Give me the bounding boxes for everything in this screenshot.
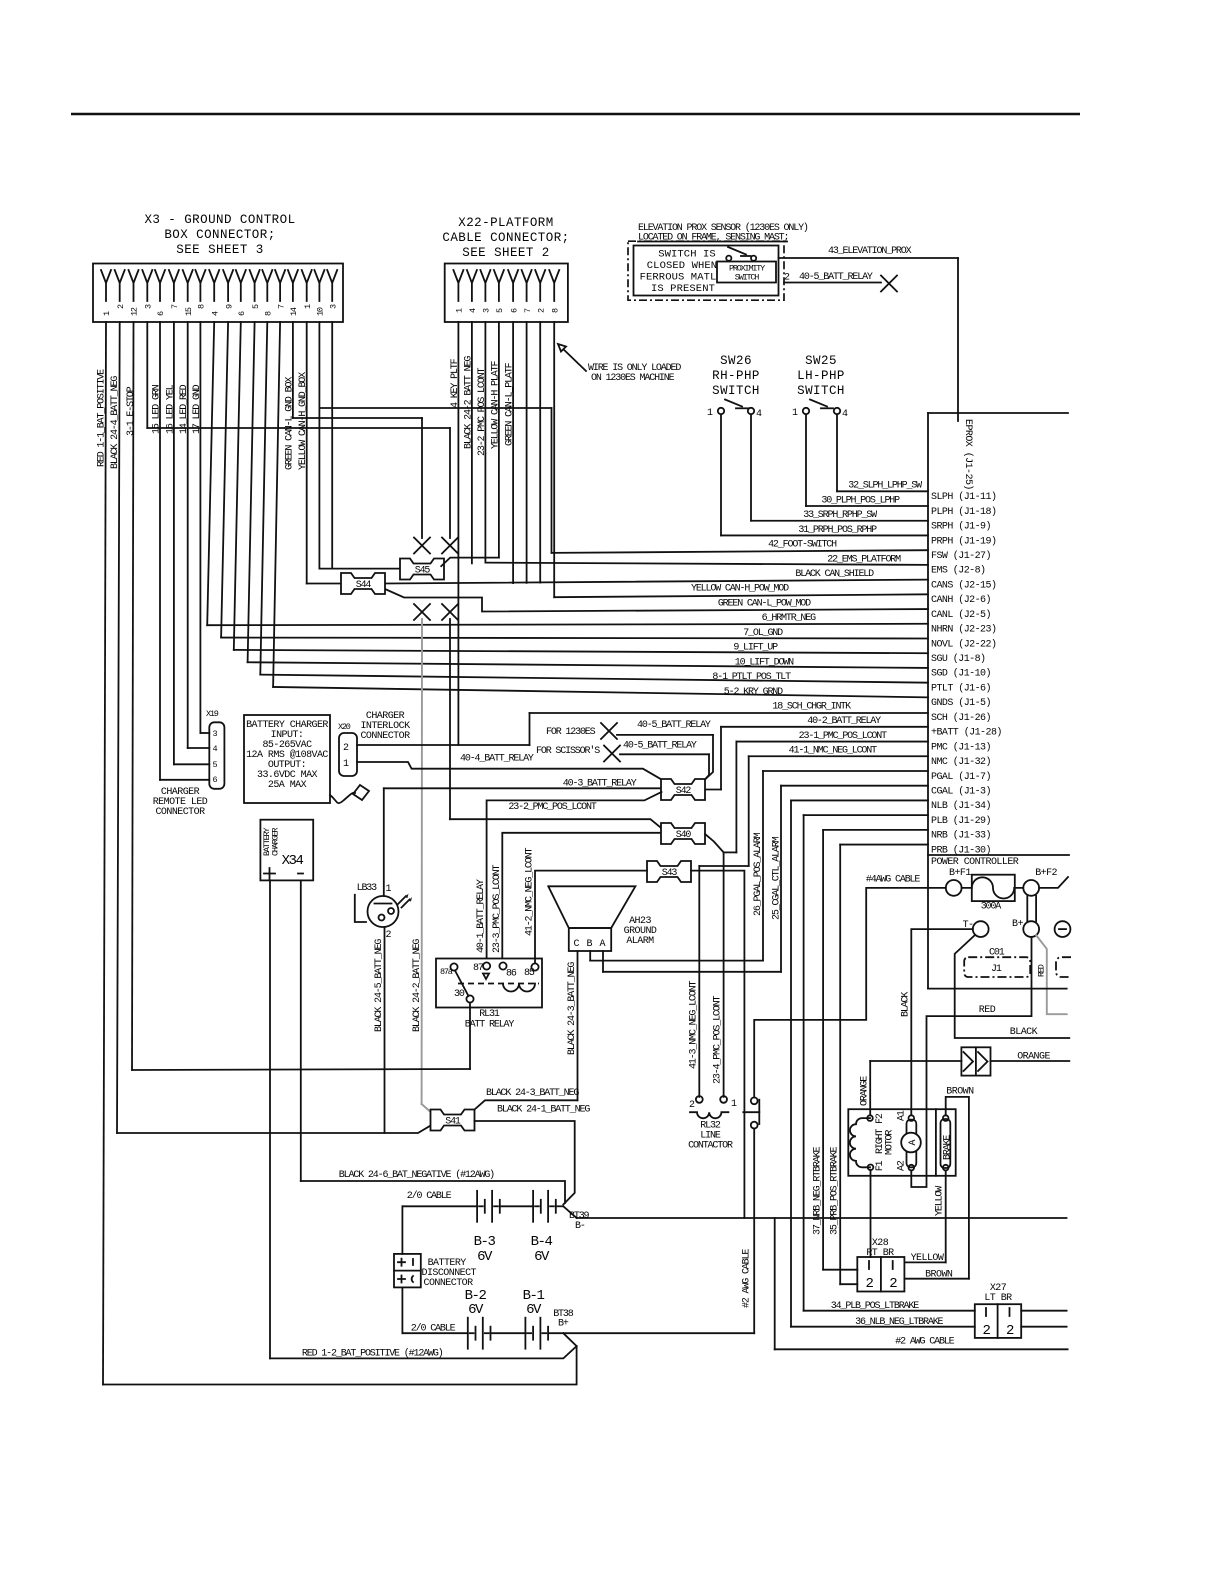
svg-text:25A MAX: 25A MAX bbox=[268, 780, 307, 791]
wire PRB into X28 bbox=[840, 1283, 857, 1285]
wire X3 pin to row PTLT (J1-6) bbox=[260, 322, 267, 675]
svg-text:S41: S41 bbox=[445, 1117, 461, 1128]
svg-text:2: 2 bbox=[343, 743, 349, 754]
X22 pin 8 bbox=[549, 270, 559, 301]
wire row +BATT from S42 bbox=[721, 726, 928, 728]
wire YELLOW from brake down bbox=[945, 1170, 947, 1262]
gray wire BLACK 24-2_BATT_NEG to S41 bbox=[421, 619, 423, 1104]
svg-text:41-3_NMC_NEG_LCONT: 41-3_NMC_NEG_LCONT bbox=[689, 981, 700, 1069]
svg-text:23-2_PMC_POS_LCONT: 23-2_PMC_POS_LCONT bbox=[477, 368, 488, 456]
wire S43 right down bbox=[691, 871, 744, 1218]
wire row EMS platform bbox=[485, 563, 928, 565]
svg-text:300A: 300A bbox=[981, 902, 1002, 913]
wire X3 pin4 to cut CAN wire bbox=[146, 322, 148, 428]
RL31 contact arm bbox=[455, 971, 469, 997]
motor terminal F2 bbox=[867, 1115, 873, 1121]
svg-text:PRB (J1-30): PRB (J1-30) bbox=[931, 844, 991, 856]
svg-text:S43: S43 bbox=[662, 868, 678, 879]
X3 pin 8 bbox=[195, 270, 205, 301]
svg-text:87a: 87a bbox=[440, 967, 453, 977]
cut mark lower black bbox=[442, 604, 458, 620]
prox sensor box bbox=[634, 246, 779, 296]
svg-text:30_PLPH_POS_LPHP: 30_PLPH_POS_LPHP bbox=[821, 495, 900, 506]
motor field coil bbox=[850, 1118, 870, 1167]
X3 pin 10 bbox=[314, 270, 324, 301]
wire RED 1-1_BAT_POSITIVE from X3 pin1 bbox=[103, 322, 106, 1385]
brake box bbox=[935, 1109, 937, 1176]
cut mark 40-5 upper bbox=[601, 723, 617, 739]
svg-text:GNDS (J1-5): GNDS (J1-5) bbox=[931, 697, 991, 709]
connector X34 battery charger bbox=[260, 820, 313, 881]
X3 pin 6 bbox=[155, 270, 165, 301]
wire S40 right to RL32 coil 1 bbox=[705, 834, 724, 1097]
wire S45 right link to X22 pin4 bbox=[441, 558, 499, 567]
svg-text:J1: J1 bbox=[991, 964, 1002, 975]
wires X3 pins 5-8 to X19 bbox=[159, 322, 161, 780]
battery disconnect connector bbox=[401, 1206, 403, 1254]
wire row SRPH from SW26 pin4 bbox=[750, 415, 752, 521]
svg-text:4: 4 bbox=[756, 409, 762, 420]
X3 pin 6 bbox=[236, 270, 246, 301]
X22 pin 6 bbox=[508, 270, 518, 301]
wire X22 pin7 down bbox=[526, 322, 528, 583]
wire row PMC bbox=[736, 741, 928, 743]
svg-text:FSW (J1-27): FSW (J1-27) bbox=[931, 550, 991, 562]
svg-text:RH-PHP: RH-PHP bbox=[712, 369, 760, 383]
wire X3 pin16 to S44 bbox=[306, 322, 308, 584]
svg-text:40-1_BATT_RELAY: 40-1_BATT_RELAY bbox=[476, 879, 487, 953]
svg-text:X34: X34 bbox=[282, 853, 304, 869]
svg-text:14: 14 bbox=[289, 307, 299, 316]
wire RL31 pin85 to S43 bbox=[535, 871, 647, 963]
svg-text:6V: 6V bbox=[526, 1302, 542, 1318]
svg-text:YELLOW: YELLOW bbox=[935, 1186, 946, 1216]
battery B-3 bbox=[476, 1191, 478, 1222]
X3 pin 7 bbox=[275, 270, 285, 301]
splice S42 bbox=[661, 779, 705, 800]
X3 pin 14 bbox=[288, 270, 298, 301]
X22 pin 7 bbox=[522, 270, 532, 301]
wire row NMC bbox=[749, 755, 928, 757]
svg-text:BLACK CAN_SHIELD: BLACK CAN_SHIELD bbox=[795, 569, 874, 580]
svg-text:B-: B- bbox=[575, 1221, 585, 1232]
svg-text:2: 2 bbox=[866, 1276, 874, 1292]
svg-text:BLACK 24-6_BAT_NEGATIVE (#12AW: BLACK 24-6_BAT_NEGATIVE (#12AWG) bbox=[339, 1169, 494, 1181]
wire battery B+ to RL32 run bbox=[565, 1332, 754, 1334]
contactor RL32 coil bbox=[696, 1096, 703, 1103]
svg-text:BLACK 24-2_BATT_NEG: BLACK 24-2_BATT_NEG bbox=[412, 939, 423, 1032]
wire BLACK 24-4 to S41 bbox=[117, 1126, 431, 1134]
svg-text:85: 85 bbox=[524, 968, 535, 979]
svg-text:10: 10 bbox=[316, 307, 326, 316]
LB33 bracket bbox=[355, 895, 366, 922]
svg-text:31_PRPH_POS_RPHP: 31_PRPH_POS_RPHP bbox=[798, 525, 877, 536]
svg-text:23-4_PMC_POS_LCONT: 23-4_PMC_POS_LCONT bbox=[713, 996, 724, 1084]
X3 pin 15 bbox=[183, 270, 193, 301]
wire X22 pin8 down bbox=[553, 322, 555, 597]
svg-text:BLACK 24-4_BATT_NEG: BLACK 24-4_BATT_NEG bbox=[110, 376, 121, 469]
wire X20 pin2 to SCH row bbox=[357, 744, 530, 746]
svg-text:26_PGAL_POS_ALARM: 26_PGAL_POS_ALARM bbox=[753, 832, 764, 916]
svg-text:B+F1: B+F1 bbox=[949, 868, 971, 879]
wire B- bus long bbox=[577, 1217, 1067, 1219]
svg-text:CANS (J2-15): CANS (J2-15) bbox=[931, 579, 996, 591]
svg-text:B: B bbox=[587, 939, 593, 950]
X22 pin 3 bbox=[480, 270, 490, 301]
wire AH23 pin B to PGAL bbox=[589, 951, 591, 961]
wire X3 pin17 to S45 bbox=[318, 322, 320, 569]
svg-text:SEE SHEET 2: SEE SHEET 2 bbox=[462, 246, 549, 260]
battery B-2 bbox=[467, 1318, 469, 1349]
svg-text:FERROUS MATL: FERROUS MATL bbox=[640, 272, 717, 284]
svg-text:35_PRB_POS_RTBRAKE: 35_PRB_POS_RTBRAKE bbox=[830, 1147, 841, 1235]
wire B+F2 right stub bbox=[1039, 877, 1068, 888]
svg-text:2: 2 bbox=[1006, 1323, 1014, 1339]
wire row NRB down to X28 bbox=[823, 829, 928, 831]
svg-text:SW26: SW26 bbox=[720, 354, 752, 368]
wire battery B+ diag bbox=[563, 1333, 576, 1346]
connector J2 dashed stub bbox=[1056, 957, 1071, 977]
wire S44 right to X22 pin6 bbox=[512, 322, 514, 583]
wire 40-1_BATT_RELAY RL31 pin87 to S42 bbox=[487, 792, 662, 958]
X3 pin 12 bbox=[129, 270, 139, 301]
RL31 pin 86 bbox=[499, 962, 506, 969]
svg-text:CGAL (J1-3): CGAL (J1-3) bbox=[931, 786, 991, 798]
svg-text:A1: A1 bbox=[897, 1110, 908, 1121]
wire motor F1 down to X28 bbox=[870, 1170, 872, 1257]
svg-text:12: 12 bbox=[130, 307, 140, 316]
wire 3-1_E-STOP from X3 pin3 bbox=[132, 322, 134, 1070]
splice S45 bbox=[400, 559, 444, 580]
svg-text:33_SRPH_RPHP_SW: 33_SRPH_RPHP_SW bbox=[803, 510, 877, 521]
brake pill bbox=[941, 1119, 951, 1168]
svg-text:7_OL_GND: 7_OL_GND bbox=[743, 628, 783, 639]
svg-text:S44: S44 bbox=[356, 580, 372, 591]
svg-text:ON 1230ES MACHINE: ON 1230ES MACHINE bbox=[591, 373, 675, 384]
svg-text:NRB (J1-33): NRB (J1-33) bbox=[931, 830, 991, 842]
wire cut to S40 (23-2_PMC_POS_LCONT) bbox=[449, 619, 451, 819]
svg-text:GREEN CAN-L_POW_MOD: GREEN CAN-L_POW_MOD bbox=[718, 598, 811, 609]
svg-text:B+: B+ bbox=[558, 1319, 569, 1330]
svg-text:PLPH (J1-18): PLPH (J1-18) bbox=[931, 506, 996, 518]
svg-text:POWER CONTROLLER: POWER CONTROLLER bbox=[931, 857, 1019, 868]
svg-text:32_SLPH_LPHP_SW: 32_SLPH_LPHP_SW bbox=[848, 481, 922, 492]
wire X3 pin15 to cut CAN wire bbox=[292, 322, 294, 418]
svg-text:BLACK 24-1_BATT_NEG: BLACK 24-1_BATT_NEG bbox=[497, 1105, 590, 1116]
wire X3 pin to row NOVL (J2-22) bbox=[221, 322, 228, 638]
cut mark CAN-L upper bbox=[414, 538, 430, 554]
wire RL31 pin30 to E-STOP line bbox=[469, 1003, 471, 1069]
svg-text:A2: A2 bbox=[897, 1160, 908, 1171]
svg-text:18_SCH_CHGR_INTK: 18_SCH_CHGR_INTK bbox=[772, 702, 851, 713]
X3 pin 1 bbox=[302, 270, 312, 301]
svg-text:42_FOOT-SWITCH: 42_FOOT-SWITCH bbox=[768, 540, 837, 551]
svg-text:6V: 6V bbox=[477, 1249, 493, 1265]
svg-text:40-5_BATT_RELAY: 40-5_BATT_RELAY bbox=[799, 272, 873, 283]
wire RL32 coil 2 up bbox=[698, 866, 700, 1097]
cut mark CAN-H upper bbox=[442, 538, 458, 554]
svg-text:RL31: RL31 bbox=[479, 1009, 500, 1020]
svg-text:LH-PHP: LH-PHP bbox=[797, 369, 845, 383]
diode block bbox=[961, 1047, 990, 1075]
wire row PGAL down to alarm bbox=[763, 770, 928, 772]
svg-text:CHARGER: CHARGER bbox=[271, 828, 281, 856]
svg-text:CONNECTOR: CONNECTOR bbox=[360, 731, 410, 742]
svg-text:CONTACTOR: CONTACTOR bbox=[688, 1141, 733, 1152]
wire T- to motor A1 (BLACK) bbox=[911, 929, 973, 1114]
wire B+ down RED to motor A2 bbox=[911, 937, 1031, 1187]
svg-text:41-2_NMC_NEG_LCONT: 41-2_NMC_NEG_LCONT bbox=[525, 848, 536, 936]
RL31 pin 85 bbox=[531, 963, 538, 970]
svg-text:SGU (J1-8): SGU (J1-8) bbox=[931, 653, 986, 665]
svg-text:X20: X20 bbox=[338, 722, 351, 732]
svg-text:FOR 1230ES: FOR 1230ES bbox=[546, 727, 596, 738]
svg-text:SGD (J1-10): SGD (J1-10) bbox=[931, 668, 991, 680]
wire X22 pin1 key joins bbox=[457, 322, 459, 745]
alarm AH23 horn bbox=[548, 886, 635, 928]
svg-text:X19: X19 bbox=[206, 709, 219, 719]
wire row PRPH from SW26 pin1 bbox=[720, 415, 722, 536]
svg-text:GREEN CAN-L_PLATF: GREEN CAN-L_PLATF bbox=[505, 362, 516, 446]
X3 pin 7 bbox=[169, 270, 179, 301]
wire row FSW foot switch bbox=[552, 550, 929, 553]
svg-text:B+F2: B+F2 bbox=[1035, 868, 1057, 879]
svg-text:#4AWG CABLE: #4AWG CABLE bbox=[866, 875, 921, 886]
svg-text:ALARM: ALARM bbox=[626, 936, 654, 947]
svg-text:23-1_PMC_POS_LCONT: 23-1_PMC_POS_LCONT bbox=[799, 731, 887, 742]
wire X22 pin2b down bbox=[539, 322, 541, 583]
svg-text:86: 86 bbox=[506, 969, 517, 980]
wire X34 minus down BLACK 24-6 bbox=[300, 880, 302, 1181]
svg-text:SCH (J1-26): SCH (J1-26) bbox=[931, 712, 991, 724]
svg-text:NLB (J1-34): NLB (J1-34) bbox=[931, 800, 991, 812]
svg-text:4: 4 bbox=[842, 409, 848, 420]
svg-text:S45: S45 bbox=[415, 566, 431, 577]
svg-text:LB33: LB33 bbox=[357, 883, 378, 894]
wire NRB into X28 bbox=[823, 1269, 857, 1271]
wire BLACK 24-4_BATT_NEG from X3 pin2 bbox=[117, 322, 120, 1133]
battery B-1 bbox=[491, 1332, 526, 1334]
X3 pin 9 bbox=[223, 270, 233, 301]
wire B- diag from battery bbox=[563, 1206, 576, 1218]
svg-text:#2 AWG CABLE: #2 AWG CABLE bbox=[742, 1249, 753, 1308]
svg-text:2: 2 bbox=[386, 930, 392, 941]
svg-text:2/0 CABLE: 2/0 CABLE bbox=[407, 1190, 452, 1202]
svg-text:YELLOW CAN-H_GND_BOX: YELLOW CAN-H_GND_BOX bbox=[298, 372, 309, 470]
wire X22 pin3 down bbox=[484, 322, 486, 563]
svg-text:MOTOR: MOTOR bbox=[885, 1130, 896, 1155]
svg-text:A: A bbox=[600, 939, 606, 950]
power controller box bottom bbox=[928, 988, 1067, 990]
svg-text:40-4_BATT_RELAY: 40-4_BATT_RELAY bbox=[460, 754, 534, 765]
page top border line bbox=[71, 113, 1080, 116]
svg-text:PLB (J1-29): PLB (J1-29) bbox=[931, 815, 991, 827]
svg-text:CANL (J2-5): CANL (J2-5) bbox=[931, 609, 991, 621]
svg-text:15: 15 bbox=[184, 307, 194, 316]
RL31 pin 87a bbox=[450, 963, 457, 970]
X3 pin 3 bbox=[327, 270, 337, 301]
wire 1230ES-only jumper bbox=[319, 407, 551, 409]
X22 pin 1 bbox=[453, 270, 463, 301]
X3 pin 4 bbox=[209, 270, 219, 301]
X22 pin 4 bbox=[467, 270, 477, 301]
wire RL31 pin86 to S40 bbox=[502, 833, 659, 958]
svg-text:1: 1 bbox=[386, 884, 392, 895]
svg-text:BOX CONNECTOR;: BOX CONNECTOR; bbox=[164, 228, 275, 242]
wire ORANGE from motor F2 bbox=[870, 1060, 961, 1062]
svg-text:BLACK 24-3_BATT_NEG: BLACK 24-3_BATT_NEG bbox=[486, 1088, 579, 1099]
svg-text:2: 2 bbox=[983, 1323, 991, 1339]
RL31 dashed bar bbox=[458, 983, 539, 985]
svg-text:#2 AWG CABLE: #2 AWG CABLE bbox=[895, 1337, 954, 1348]
svg-text:EMS (J2-8): EMS (J2-8) bbox=[931, 565, 986, 577]
svg-text:+BATT (J1-28): +BATT (J1-28) bbox=[931, 727, 1002, 739]
svg-text:SRPH (J1-9): SRPH (J1-9) bbox=[931, 521, 991, 533]
RL31 coil arcs bbox=[503, 984, 535, 992]
svg-text:BLACK: BLACK bbox=[901, 992, 912, 1017]
wire RED 1-1 bottom run bbox=[103, 1346, 577, 1384]
gray highlight RED stub bbox=[1036, 935, 1067, 1014]
svg-text:BATT RELAY: BATT RELAY bbox=[465, 1020, 515, 1031]
svg-text:40-5_BATT_RELAY: 40-5_BATT_RELAY bbox=[637, 720, 711, 731]
svg-text:BRAKE: BRAKE bbox=[943, 1135, 954, 1160]
fuse 300A bbox=[972, 875, 1015, 901]
svg-text:X3 - GROUND CONTROL: X3 - GROUND CONTROL bbox=[144, 213, 295, 227]
svg-text:SWITCH: SWITCH bbox=[797, 384, 845, 398]
svg-text:BROWN: BROWN bbox=[946, 1087, 974, 1098]
svg-text:43_ELEVATION_PROX: 43_ELEVATION_PROX bbox=[828, 246, 912, 257]
svg-text:ORANGE: ORANGE bbox=[860, 1076, 871, 1106]
wire BLACK 24-5_BATT_NEG from LB33 pin2 bbox=[384, 927, 386, 1133]
wire X34 plus down RED 1-2 bbox=[269, 880, 271, 1358]
splice S41 bbox=[431, 1110, 475, 1131]
EPROX pin stub bbox=[957, 413, 959, 421]
svg-text:X22-PLATFORM: X22-PLATFORM bbox=[458, 216, 553, 230]
cut mark 40-5 lower bbox=[604, 746, 620, 762]
wire X22 pin2 down bbox=[471, 322, 473, 563]
wires X27 right stubs bbox=[1021, 1310, 1066, 1312]
svg-text:30: 30 bbox=[454, 989, 465, 1000]
svg-text:6V: 6V bbox=[468, 1302, 484, 1318]
wire row CGAL down to alarm bbox=[781, 785, 928, 787]
X3 pin 3 bbox=[142, 270, 152, 301]
X22 pin 5 bbox=[494, 270, 504, 301]
svg-text:SW25: SW25 bbox=[805, 354, 837, 368]
svg-text:CLOSED WHEN: CLOSED WHEN bbox=[647, 260, 717, 272]
svg-text:B-4: B-4 bbox=[531, 1234, 553, 1250]
wire X3 pin to row NHRN (J2-23) bbox=[207, 322, 214, 625]
svg-text:23-2_PMC_POS_LCONT: 23-2_PMC_POS_LCONT bbox=[508, 802, 596, 813]
X3 pin 8 bbox=[262, 270, 272, 301]
svg-text:B+: B+ bbox=[1012, 919, 1023, 930]
svg-text:GREEN CAN-L_GND_BOX: GREEN CAN-L_GND_BOX bbox=[284, 377, 295, 470]
svg-text:CANH (J2-6): CANH (J2-6) bbox=[931, 594, 991, 606]
svg-text:40-2_BATT_RELAY: 40-2_BATT_RELAY bbox=[807, 716, 881, 727]
battery charger box bbox=[244, 715, 330, 803]
svg-text:RED: RED bbox=[1037, 964, 1047, 977]
svg-text:1: 1 bbox=[707, 408, 713, 419]
svg-text:PRPH (J1-19): PRPH (J1-19) bbox=[931, 535, 996, 547]
wire X3 pin to row SGD (J1-10) bbox=[248, 322, 255, 662]
wire row SCH from X20 pin2 bbox=[530, 712, 929, 714]
wire row SLPH from SW25 pin4 bbox=[836, 415, 838, 492]
splice S44 bbox=[341, 573, 385, 594]
svg-text:6V: 6V bbox=[534, 1249, 550, 1265]
svg-text:F2: F2 bbox=[875, 1113, 886, 1124]
svg-text:RED 1-1_BAT_POSITIVE: RED 1-1_BAT_POSITIVE bbox=[97, 369, 108, 467]
wire T- diag down BLACK right bbox=[955, 935, 1070, 1038]
X3 pin 5 bbox=[250, 270, 260, 301]
wire note arrow 1230ES bbox=[560, 346, 586, 371]
svg-text:CABLE CONNECTOR;: CABLE CONNECTOR; bbox=[442, 231, 569, 245]
svg-text:6_HRMTR_NEG: 6_HRMTR_NEG bbox=[762, 613, 817, 624]
svg-text:87: 87 bbox=[473, 963, 484, 974]
proximity switch box bbox=[717, 262, 776, 283]
svg-text:BLACK 24-3_BATT_NEG: BLACK 24-3_BATT_NEG bbox=[567, 962, 578, 1055]
X3 pin 2 bbox=[115, 270, 125, 301]
svg-text:37_NRB_NEG_RTBRAKE: 37_NRB_NEG_RTBRAKE bbox=[813, 1147, 824, 1235]
svg-text:25_CGAL_CTL_ALARM: 25_CGAL_CTL_ALARM bbox=[772, 836, 783, 920]
motor terminal F1 bbox=[868, 1165, 874, 1171]
svg-text:PTLT (J1-6): PTLT (J1-6) bbox=[931, 682, 991, 694]
wire row PLPH from SW25 pin1 bbox=[805, 415, 807, 507]
svg-text:5-2_KRY_GRND: 5-2_KRY_GRND bbox=[724, 687, 783, 698]
svg-text:SLPH (J1-11): SLPH (J1-11) bbox=[931, 491, 996, 503]
svg-text:RED: RED bbox=[979, 1005, 996, 1016]
svg-text:PMC (J1-13): PMC (J1-13) bbox=[931, 741, 991, 753]
X22 pin 2 bbox=[535, 270, 545, 301]
svg-text:F1: F1 bbox=[875, 1160, 886, 1171]
svg-text:BLACK: BLACK bbox=[1010, 1027, 1038, 1038]
svg-text:B-3: B-3 bbox=[474, 1234, 496, 1250]
svg-text:2: 2 bbox=[889, 1276, 897, 1292]
motor terminal A1 bbox=[909, 1115, 915, 1121]
charger pigtail bbox=[330, 793, 355, 803]
svg-text:CONNECTOR: CONNECTOR bbox=[155, 807, 205, 818]
svg-text:23-3_PMC_POS_LCONT: 23-3_PMC_POS_LCONT bbox=[492, 865, 503, 953]
svg-text:1: 1 bbox=[792, 408, 798, 419]
motor terminal A2 bbox=[909, 1165, 915, 1171]
svg-text:3-1_E-STOP: 3-1_E-STOP bbox=[126, 386, 137, 436]
svg-text:BLACK 24-5_BATT_NEG: BLACK 24-5_BATT_NEG bbox=[374, 939, 385, 1032]
svg-text:NOVL (J2-22): NOVL (J2-22) bbox=[931, 638, 996, 650]
svg-text:S40: S40 bbox=[676, 830, 692, 841]
svg-text:YELLOW CAN-H_POW_MOD: YELLOW CAN-H_POW_MOD bbox=[691, 584, 789, 595]
svg-text:NHRN (J2-23): NHRN (J2-23) bbox=[931, 624, 996, 636]
wire row CANH bbox=[554, 594, 928, 597]
contactor RL32 contact bbox=[751, 1097, 758, 1104]
svg-text:C: C bbox=[574, 939, 580, 950]
svg-text:SWITCH IS: SWITCH IS bbox=[658, 249, 716, 261]
cut mark lower gray bbox=[414, 604, 430, 620]
proximity switch symbol bbox=[726, 256, 731, 261]
svg-text:1: 1 bbox=[343, 759, 349, 770]
brake terminals bbox=[943, 1115, 949, 1121]
svg-text:NMC (J1-32): NMC (J1-32) bbox=[931, 756, 991, 768]
svg-text:41-1_NMC_NEG_LCONT: 41-1_NMC_NEG_LCONT bbox=[789, 746, 877, 757]
svg-text:YELLOW CAN-H_PLATF: YELLOW CAN-H_PLATF bbox=[490, 361, 501, 449]
svg-text:IS PRESENT: IS PRESENT bbox=[651, 283, 715, 295]
wire AH23 pin C down (BLACK 24-3_BATT_NEG) bbox=[577, 951, 579, 1100]
svg-text:LT BR: LT BR bbox=[984, 1293, 1012, 1304]
controller box outline bbox=[928, 412, 1068, 414]
charger pigtail plug diamond bbox=[353, 785, 369, 800]
wire AH23 pin A to CGAL bbox=[602, 951, 604, 972]
svg-text:SWITCH: SWITCH bbox=[735, 273, 760, 283]
wire row PRB down to X28 bbox=[840, 844, 928, 846]
svg-text:SEE SHEET 3: SEE SHEET 3 bbox=[176, 243, 263, 257]
RL31 pin 87 bbox=[483, 962, 490, 969]
